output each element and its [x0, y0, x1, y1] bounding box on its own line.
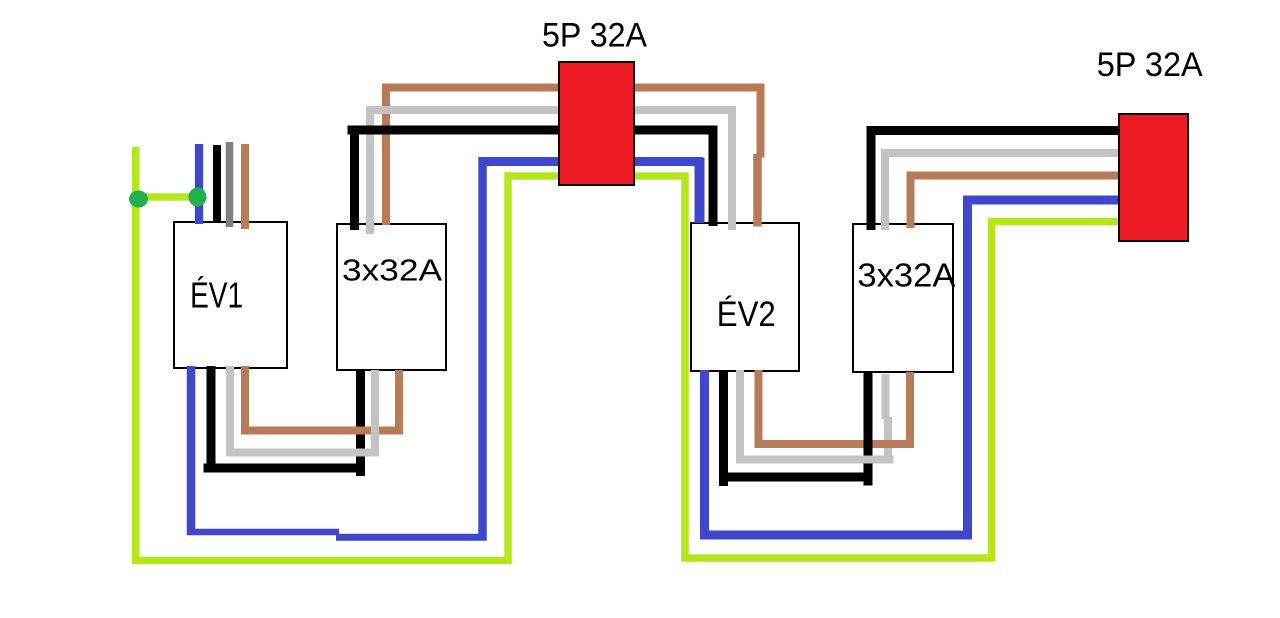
svg-text:5P 32A: 5P 32A: [1097, 46, 1203, 84]
svg-text:ÉV2: ÉV2: [717, 295, 776, 334]
svg-text:5P 32A: 5P 32A: [542, 16, 647, 54]
svg-text:ÉV1: ÉV1: [190, 275, 243, 316]
svg-text:3x32A: 3x32A: [342, 253, 442, 288]
svg-text:3x32A: 3x32A: [857, 257, 955, 294]
